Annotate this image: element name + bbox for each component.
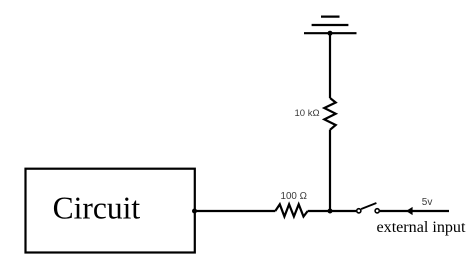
wire: ground to R1 [329, 33, 331, 98]
svg-text:10 kΩ: 10 kΩ [295, 108, 320, 119]
wire: switch to external input [380, 210, 449, 212]
svg-text:Circuit: Circuit [53, 190, 141, 225]
switch S1 (open SPST) [357, 203, 380, 213]
arrow: signal direction into switch [406, 207, 413, 215]
svg-text:5v: 5v [422, 197, 433, 208]
wire: R2 to switch [308, 210, 357, 212]
wire: R1 to junction node [329, 130, 331, 211]
node: box output terminal [192, 209, 197, 214]
resistor R2 (100 Ohm, horizontal) [275, 204, 307, 216]
node: ground junction [328, 31, 333, 36]
circuit block U1 [26, 169, 195, 253]
svg-text:external input: external input [377, 219, 466, 236]
node: tee junction (R2 / R1 / switch) [328, 209, 333, 214]
svg-text:100 Ω: 100 Ω [281, 191, 307, 202]
wire: box to R2 [195, 210, 276, 212]
ground [304, 17, 357, 34]
resistor R1 (10 kOhm, vertical) [324, 98, 335, 130]
